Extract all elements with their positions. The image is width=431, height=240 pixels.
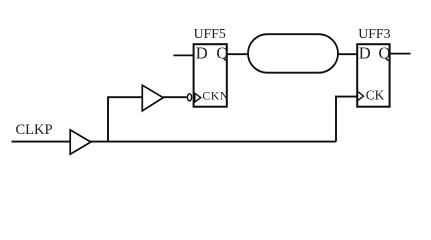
wire branch vertical at x=108: [107, 97, 109, 143]
wire buffer B2 output to UFF5 CKN bubble: [163, 96, 187, 98]
interconnect stadium shape: [248, 34, 338, 72]
wire UFF5 Q to stadium: [227, 53, 249, 55]
wire UFF3 Q output: [390, 53, 411, 55]
svg-text:Q: Q: [379, 44, 391, 63]
buffer B1: [70, 130, 91, 154]
svg-text:CLKP: CLKP: [16, 122, 53, 138]
clock wedge of UFF3: [358, 91, 364, 100]
svg-text:CKN: CKN: [202, 89, 228, 103]
flip-flop UFF5 body: [194, 44, 227, 106]
wire branch horizontal to buffer B2: [107, 96, 142, 98]
svg-text:UFF5: UFF5: [194, 26, 226, 41]
wire CLKP input (bottom horizontal): [12, 141, 337, 143]
svg-text:D: D: [196, 44, 208, 63]
wire stadium to UFF3 D: [338, 53, 358, 55]
buffer B2: [142, 85, 163, 111]
wire CK horizontal into UFF3: [335, 96, 357, 98]
svg-text:Q: Q: [216, 44, 228, 63]
flip-flop UFF3 body: [357, 44, 389, 106]
svg-text:UFF3: UFF3: [358, 26, 390, 41]
clock wedge of UFF5: [195, 93, 201, 102]
wire CK riser vertical: [335, 96, 337, 142]
wire UFF5 D input stub: [173, 54, 194, 56]
inverter bubble at UFF5 CKN: [187, 94, 191, 101]
svg-text:D: D: [359, 44, 371, 63]
svg-text:CK: CK: [366, 87, 385, 102]
